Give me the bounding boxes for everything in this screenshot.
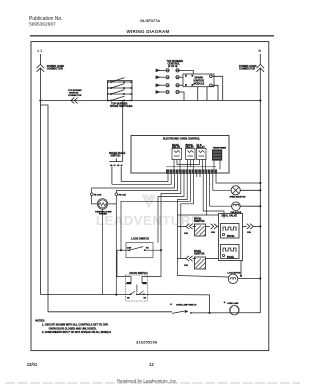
svg-text:Publication No.: Publication No. bbox=[29, 16, 63, 22]
svg-text:CONNECTOR: CONNECTOR bbox=[68, 95, 82, 97]
svg-text:(1 OF 4): (1 OF 4) bbox=[168, 65, 177, 68]
svg-text:SPARK SWITCHES: SPARK SWITCHES bbox=[110, 105, 133, 108]
svg-text:IGNITOR: IGNITOR bbox=[194, 220, 205, 223]
svg-text:12/01: 12/01 bbox=[27, 362, 38, 367]
svg-text:LOCK MOTOR: LOCK MOTOR bbox=[228, 273, 242, 275]
svg-text:SPEED BAKE FAN: SPEED BAKE FAN bbox=[230, 196, 246, 199]
svg-text:RELAY: RELAY bbox=[197, 146, 206, 149]
svg-text:CONNECTOR: CONNECTOR bbox=[47, 68, 63, 71]
svg-text:COM: COM bbox=[127, 248, 132, 250]
svg-text:2. COMPONENTS WITH * DO NOT: 2. COMPONENTS WITH * DO NOT APPEAR ON AL… bbox=[42, 331, 111, 334]
svg-text:RELAY: RELAY bbox=[172, 146, 181, 149]
svg-text:DUAL VALVE: DUAL VALVE bbox=[222, 215, 238, 218]
svg-text:IGNITOR: IGNITOR bbox=[194, 253, 205, 256]
svg-text:PROBE: PROBE bbox=[99, 214, 107, 216]
svg-text:LOCK SWITCH: LOCK SWITCH bbox=[131, 238, 149, 241]
svg-text:GLGF377A: GLGF377A bbox=[140, 18, 160, 23]
svg-text:1. CIRCUIT SHOWN WITH ALL CON: 1. CIRCUIT SHOWN WITH ALL CONTROLS SET T… bbox=[42, 324, 109, 327]
svg-text:316255206: 316255206 bbox=[136, 340, 158, 345]
svg-text:RELAY: RELAY bbox=[186, 146, 195, 149]
svg-text:SWITCH: SWITCH bbox=[111, 155, 121, 158]
svg-text:BAKE: BAKE bbox=[227, 256, 234, 259]
svg-text:CONNECTOR: CONNECTOR bbox=[239, 68, 255, 71]
svg-text:12: 12 bbox=[149, 362, 154, 367]
svg-text:5995362687: 5995362687 bbox=[29, 22, 56, 28]
svg-text:L 1: L 1 bbox=[38, 49, 43, 53]
svg-text:NOTES:: NOTES: bbox=[35, 319, 45, 322]
svg-text:MODULE: MODULE bbox=[194, 82, 205, 85]
svg-text:WIRING DIAGRAM: WIRING DIAGRAM bbox=[127, 29, 170, 34]
svg-text:TRANSFORMER: TRANSFORMER bbox=[213, 146, 227, 149]
svg-text:DOOR SWITCH: DOOR SWITCH bbox=[130, 272, 148, 275]
svg-text:PB CON: PB CON bbox=[118, 194, 126, 196]
svg-text:BROIL: BROIL bbox=[227, 235, 235, 238]
svg-text:OVEN LAMP: OVEN LAMP bbox=[227, 302, 239, 305]
svg-text:OVEN DOOR CLOSED AND UNLOCKED.: OVEN DOOR CLOSED AND UNLOCKED. bbox=[49, 327, 97, 330]
svg-text:OVEN LAMP SWITCH: OVEN LAMP SWITCH bbox=[176, 304, 197, 307]
svg-text:ELECTRONIC OVEN CONTROL: ELECTRONIC OVEN CONTROL bbox=[163, 137, 201, 140]
svg-text:PB CON: PB CON bbox=[94, 194, 102, 196]
